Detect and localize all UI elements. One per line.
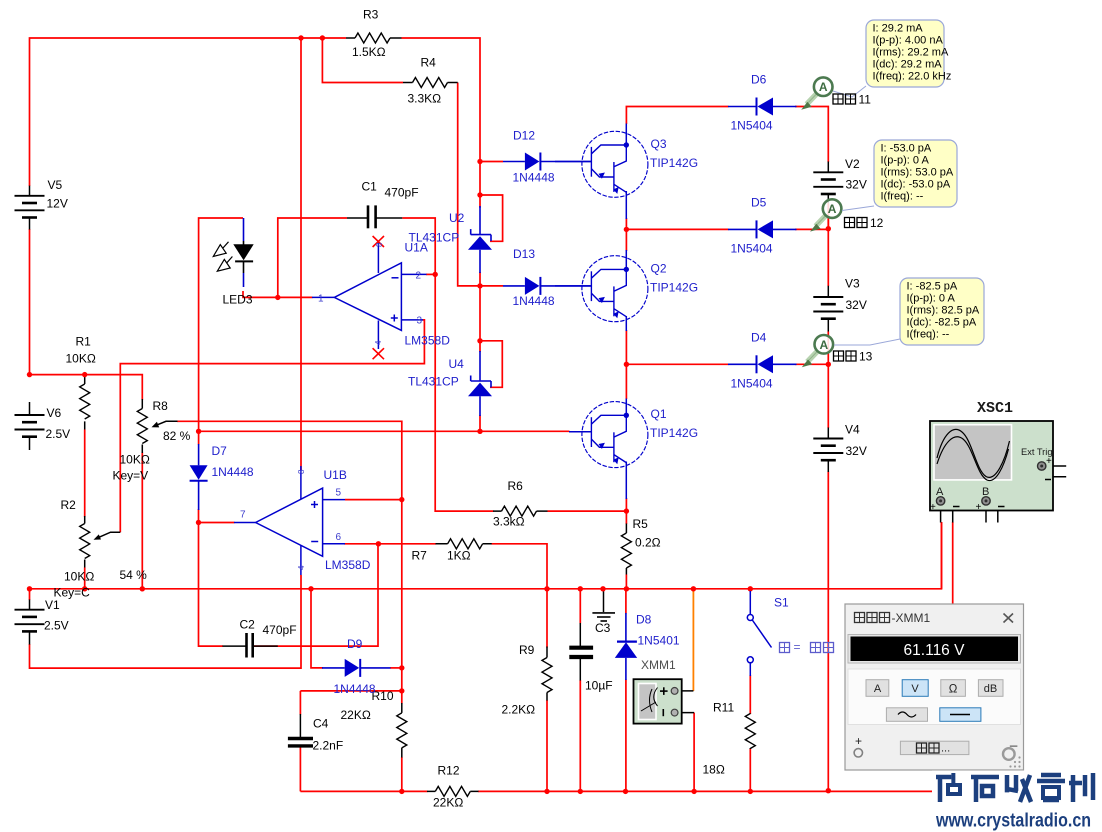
diode D7 1N4448 vertical (190, 465, 208, 481)
svg-text:0.2Ω: 0.2Ω (635, 536, 661, 550)
resistor R5 (621, 533, 631, 568)
node junction 6 (477, 338, 482, 343)
wire R8 bottom to mid rail (141, 453, 143, 589)
svg-text:Key=C: Key=C (54, 586, 91, 600)
svg-text:4: 4 (297, 565, 306, 570)
node junction 26 (140, 586, 145, 591)
wire net bottom rail right of R12 (478, 790, 953, 792)
node junction 36 (623, 789, 628, 794)
node junction 21 (624, 508, 629, 513)
node junction 23 (826, 362, 831, 367)
wire C3 top lead (579, 589, 581, 624)
wire R1 top lead drop (84, 375, 86, 377)
resistor R10 (397, 713, 407, 748)
resistor R6 (502, 506, 537, 516)
svg-text:Ω: Ω (949, 683, 958, 695)
svg-text:I: -82.5 pA: I: -82.5 pA (907, 281, 958, 293)
wire V2 leads (827, 162, 829, 204)
svg-text:32V: 32V (846, 298, 867, 312)
node junction 3 (477, 159, 482, 164)
svg-text:+: + (930, 502, 936, 513)
wire C4 leads (299, 714, 301, 748)
node junction 39 (826, 788, 831, 793)
wire V4 minus down to bottom rail (827, 472, 829, 791)
svg-text:10µF: 10µF (585, 679, 613, 693)
svg-text:13: 13 (859, 350, 873, 364)
wire V2- to D5 node (827, 203, 829, 229)
svg-text:2: 2 (416, 271, 422, 282)
resistor R11 (745, 714, 755, 749)
svg-text:470pF: 470pF (385, 186, 419, 200)
svg-text:D9: D9 (347, 637, 363, 651)
svg-text:8: 8 (375, 242, 384, 247)
svg-text:XSC1: XSC1 (977, 400, 1013, 417)
svg-text:6: 6 (336, 532, 342, 543)
svg-text:3: 3 (417, 316, 423, 327)
R2 wiper arrowhead (94, 534, 102, 539)
node junction 14 (399, 497, 404, 502)
svg-text:R8: R8 (153, 399, 169, 413)
battery V4 32V (813, 439, 843, 461)
current probe 13 (802, 335, 833, 367)
measurement box probe 13 (900, 278, 984, 345)
wire scope ext trig stubs (1046, 466, 1067, 477)
wire U1B pin4 down left to V1- (30, 575, 302, 668)
wire S1 bottom to R11 (749, 675, 751, 714)
svg-text:I(rms): 53.0 pA: I(rms): 53.0 pA (881, 167, 954, 179)
wire net C2 right to U1B pin6 / R7 (253, 544, 436, 646)
wire net bottom rail left of R12 (300, 790, 427, 792)
battery V6 2.5V (15, 415, 45, 437)
wire U4 ref loop (480, 341, 502, 388)
diode D8 1N5401 vertical (615, 642, 637, 658)
svg-text:+: + (855, 734, 862, 748)
node junction 34 (544, 789, 549, 794)
dialog resize grip (1009, 756, 1020, 767)
svg-text:S1: S1 (774, 596, 789, 610)
node junction 13 (275, 295, 280, 300)
svg-text:+: + (1046, 456, 1052, 467)
svg-text:Key=V: Key=V (113, 469, 149, 483)
svg-text:I(rms): 29.2 mA: I(rms): 29.2 mA (873, 47, 949, 59)
measurement box probe 12 (874, 140, 957, 207)
svg-text:dB: dB (984, 683, 997, 695)
resistor R7 (448, 539, 483, 549)
svg-text:I(p-p): 4.00 nA: I(p-p): 4.00 nA (873, 35, 944, 47)
wire R3 right to x480 bus down to U2 (402, 38, 481, 208)
wire V6 leads (29, 402, 31, 450)
wire D6 cathode to V2 top (795, 107, 828, 163)
svg-text:D5: D5 (751, 196, 767, 210)
svg-text:1N4448: 1N4448 (212, 465, 254, 479)
node junction 19 (624, 227, 629, 232)
node junction 5 (477, 283, 482, 288)
node junction 8 (433, 272, 438, 277)
svg-text:TIP142G: TIP142G (650, 281, 698, 295)
svg-text:470pF: 470pF (263, 623, 297, 637)
capacitor C1 (368, 205, 376, 228)
node junction 37 (691, 789, 696, 794)
svg-text:...: ... (941, 743, 950, 755)
capacitor C2 (247, 633, 253, 658)
svg-text:LM358D: LM358D (325, 558, 371, 572)
wire R9 leads (546, 647, 548, 701)
wire scope B terminal stubs (986, 501, 998, 523)
svg-text:3.3kΩ: 3.3kΩ (493, 515, 525, 529)
transistor Q3 TIP142G (582, 131, 648, 197)
wire C3 bottom to bottom rail (579, 680, 581, 791)
dialog title CJK 万用表-XMM1 (855, 613, 890, 623)
multimeter dialog XMM1 window (845, 604, 1024, 770)
diode D13 1N4448 (525, 277, 541, 295)
op-amp U1A no-connect X pin8 (373, 236, 384, 247)
svg-text:D4: D4 (751, 331, 767, 345)
wire net V5- / R1 / R8 top row (30, 229, 143, 400)
resistor R1 (80, 384, 90, 419)
svg-text:D8: D8 (636, 613, 652, 627)
wire D5 cathode to V2- V3+ node (795, 204, 828, 286)
svg-text:4: 4 (374, 340, 383, 345)
wire U1B pin7 stub (199, 522, 235, 524)
wire Q2 collector from D5 node (625, 229, 627, 251)
wire net U1A pin1 / LED3 cathode / C1 left (243, 218, 347, 297)
svg-text:TIP142G: TIP142G (650, 426, 698, 440)
svg-text:R12: R12 (438, 764, 460, 778)
svg-text:1: 1 (318, 294, 324, 305)
node junction 29 (600, 586, 605, 591)
svg-text:I: -53.0 pA: I: -53.0 pA (881, 143, 932, 155)
button settings CJK (900, 741, 969, 754)
wire V5 leads (29, 186, 31, 230)
label probe 12 (845, 218, 868, 228)
wire net mid rail (30, 522, 942, 589)
svg-text:www.crystalradio.cn: www.crystalradio.cn (935, 810, 1091, 832)
svg-text:10KΩ: 10KΩ (66, 352, 96, 366)
wire R10 top lead (401, 691, 403, 704)
svg-text:R2: R2 (61, 498, 77, 512)
node junction 11 (196, 429, 201, 434)
node junction 33 (399, 789, 404, 794)
wire D5 row (626, 228, 728, 230)
wire net LED3 anode / D7 / U4 anode / Q1 base row (199, 218, 570, 445)
svg-text:12V: 12V (47, 197, 68, 211)
wire R2 wiper arrow (98, 532, 121, 538)
callout line probe 12 (842, 206, 874, 211)
wire U4 anode to Q1 base row (479, 415, 481, 431)
battery V1 2.5V (15, 610, 45, 632)
svg-text:C1: C1 (362, 180, 378, 194)
node junction 22 (826, 226, 831, 231)
svg-text:C4: C4 (313, 717, 329, 731)
svg-text:V3: V3 (845, 277, 860, 291)
svg-text:I(freq): 22.0 kHz: I(freq): 22.0 kHz (873, 71, 952, 83)
wire R8 wiper arrow (156, 421, 178, 425)
svg-text:V5: V5 (48, 178, 63, 192)
svg-text:I: 29.2 mA: I: 29.2 mA (873, 23, 924, 35)
node junction 2 (320, 35, 325, 40)
svg-text:12: 12 (870, 216, 884, 230)
node junction 9 (27, 372, 32, 377)
svg-text:1N5404: 1N5404 (731, 377, 773, 391)
current probe 12 (810, 199, 841, 231)
diode D5 1N5404 (757, 220, 774, 238)
svg-text:1KΩ: 1KΩ (447, 549, 471, 563)
svg-text:61.116 V: 61.116 V (904, 642, 966, 659)
node junction 27 (544, 586, 549, 591)
svg-text:TL431CP: TL431CP (408, 375, 459, 389)
wire net R4 branch (322, 38, 403, 83)
wire Q1 emitter to R5 top node (625, 498, 627, 511)
oscilloscope XSC1 (930, 421, 1053, 513)
wire R9 bottom to bottom rail (546, 700, 548, 791)
wire stub to D13 anode (480, 285, 503, 287)
node junction 7 (477, 429, 482, 434)
svg-text:R1: R1 (76, 335, 92, 349)
svg-text:-XMM1: -XMM1 (892, 611, 931, 625)
wire U1A pin2 stub (426, 273, 435, 275)
svg-text:V6: V6 (47, 406, 62, 420)
svg-text:R5: R5 (633, 517, 649, 531)
svg-text:D13: D13 (513, 247, 535, 261)
LED LED3 (233, 244, 253, 260)
svg-text:V4: V4 (845, 423, 860, 437)
wire R12 leads (427, 790, 479, 792)
wire R2 leads (84, 516, 86, 568)
node junction 15 (376, 541, 381, 546)
svg-text:82 %: 82 % (163, 429, 191, 443)
node junction 25 (82, 586, 87, 591)
node junction 18 (308, 586, 313, 591)
resistor R3 (355, 33, 390, 43)
label probe 11 (833, 94, 856, 104)
diode D4 1N5404 (757, 355, 774, 373)
wire D4 cathode to V3- V4+ node (795, 332, 828, 429)
wire R1 bottom to R2 top (84, 430, 86, 518)
svg-text:22KΩ: 22KΩ (433, 796, 463, 810)
svg-text:LED3: LED3 (223, 293, 253, 307)
svg-text:V2: V2 (845, 157, 860, 171)
svg-text:_: _ (1009, 732, 1018, 747)
svg-text:I(freq): --: I(freq): -- (881, 191, 924, 203)
R8 wiper arrowhead (152, 422, 160, 428)
svg-text:D7: D7 (212, 444, 228, 458)
wire R10 leads (401, 703, 403, 758)
svg-text:22KΩ: 22KΩ (341, 708, 371, 722)
wire net U1A pin3 to R2 wiper (120, 320, 424, 532)
potentiometer R8 (137, 409, 147, 444)
wire D4 row (626, 363, 728, 365)
button AC (886, 708, 927, 722)
multimeter icon XMM1 (634, 679, 682, 723)
svg-text:R4: R4 (421, 56, 437, 70)
wire R5 leads (625, 524, 627, 575)
wire stub to D12 anode (480, 161, 503, 163)
node junction 28 (578, 586, 583, 591)
svg-text:8: 8 (297, 469, 306, 474)
shunt regulator U4 TL431CP (468, 376, 492, 397)
button Ohm (941, 680, 966, 697)
ground (592, 613, 615, 621)
resistor R12 (435, 786, 470, 796)
battery V3 32V (813, 297, 843, 319)
button V selected (902, 680, 928, 697)
wire Q1 collector from D4 node (625, 364, 627, 399)
op-amp U1A no-connect X pin4 (373, 348, 384, 359)
node junction 32 (748, 586, 753, 591)
svg-text:XMM1: XMM1 (641, 658, 676, 672)
resistor R4 (413, 78, 448, 88)
wire orange mid rail to XMM1 + terminal (692, 589, 694, 691)
svg-text:1N4448: 1N4448 (334, 682, 376, 696)
LED3 arrows (213, 242, 232, 271)
svg-text:Q2: Q2 (651, 262, 667, 276)
svg-text:LM358D: LM358D (405, 334, 451, 348)
capacitor C4 2.2nF (288, 739, 313, 746)
node junction 1 (298, 35, 303, 40)
transistor Q1 TIP142G (582, 402, 648, 468)
svg-text:U1A: U1A (405, 241, 428, 255)
shunt regulator U2 TL431CP (468, 229, 492, 250)
node junction 12 (196, 520, 201, 525)
svg-text:R6: R6 (508, 479, 524, 493)
svg-text:I(freq): --: I(freq): -- (907, 329, 950, 341)
label probe 13 (834, 351, 857, 361)
potentiometer R2 (80, 524, 90, 559)
svg-text:C3: C3 (595, 621, 611, 635)
svg-text:=: = (794, 640, 801, 654)
svg-text:C2: C2 (240, 618, 256, 632)
wire Q2 emitter to D4 node (625, 330, 627, 364)
current probe 11 (801, 77, 832, 109)
wire net +12V rail down to U1B pin8 (300, 38, 302, 470)
wire XMM1 minus to bottom rail (693, 713, 695, 792)
wire R4 right down to D13 node (458, 83, 480, 286)
wire V1 leads (29, 600, 31, 645)
wire D9 anode from mid rail (311, 589, 323, 668)
wire R11 bottom to bottom rail (749, 749, 751, 792)
wire C4 branch verticals (299, 691, 301, 792)
button DC selected (940, 708, 981, 722)
wire R4 leads (403, 82, 458, 84)
wire U2 ref loop (480, 195, 503, 241)
svg-text:2.5V: 2.5V (44, 619, 69, 633)
svg-text:TIP142G: TIP142G (650, 156, 698, 170)
svg-text:7: 7 (240, 510, 246, 521)
svg-text:10KΩ: 10KΩ (120, 453, 150, 467)
wire net V1 top lead (29, 589, 31, 600)
wire net R8 wiper to U1B pin5 and D9/R10 bus (177, 421, 402, 691)
transistor Q2 TIP142G (582, 256, 648, 322)
wire C1 leads (347, 217, 402, 219)
svg-text:Q3: Q3 (651, 137, 667, 151)
node junction 31 (691, 586, 696, 591)
wire D7 cathode to U1B pin7 (199, 509, 224, 646)
svg-text:Q1: Q1 (651, 407, 667, 421)
svg-text:U4: U4 (449, 357, 465, 371)
svg-text:1N5404: 1N5404 (731, 242, 773, 256)
svg-text:I(p-p): 0 A: I(p-p): 0 A (907, 293, 956, 305)
callout line probe 11 (833, 86, 866, 97)
button dB (978, 680, 1003, 697)
button A (866, 680, 889, 697)
measurement box probe 11 (866, 20, 951, 87)
wire ground stub (603, 589, 605, 612)
wire D9 cathode stub (390, 667, 402, 669)
wire C4 top row (300, 690, 401, 692)
diode D12 1N4448 (525, 153, 541, 171)
svg-text:I(dc): 29.2 mA: I(dc): 29.2 mA (873, 59, 943, 71)
svg-text:10KΩ: 10KΩ (64, 570, 94, 584)
svg-text:5: 5 (336, 488, 342, 499)
node junction 24 (27, 586, 32, 591)
wire R3 leads (346, 37, 402, 39)
wire U1B pin5 stub (345, 499, 402, 501)
svg-text:R7: R7 (412, 549, 428, 563)
node junction 35 (578, 789, 583, 794)
wire R6 right to Q1 emitter node (548, 510, 627, 512)
callout line probe 13 (834, 339, 900, 345)
svg-text:V: V (911, 683, 919, 695)
wire R2 bottom to mid rail (84, 568, 86, 589)
svg-text:1N5401: 1N5401 (638, 634, 680, 648)
wire R5 top lead (625, 511, 627, 524)
svg-text:32V: 32V (846, 444, 867, 458)
svg-text:3.3KΩ: 3.3KΩ (408, 92, 442, 106)
resistor R9 (542, 658, 552, 693)
wire net V5+ / top rail to R3 (30, 38, 347, 186)
wire x480 bus D13 to U4 cathode (479, 286, 481, 352)
svg-text:1.5KΩ: 1.5KΩ (352, 45, 386, 59)
dialog display (848, 635, 1021, 664)
node junction 16 (399, 665, 404, 670)
wire R11 leads (749, 714, 751, 750)
wire Q3 collector to D6 row (626, 107, 728, 125)
node junction 20 (624, 362, 629, 367)
node junction 38 (748, 789, 753, 794)
diode D6 1N5404 (757, 98, 774, 116)
battery V5 12V (15, 196, 45, 218)
svg-text:I(rms): 82.5 pA: I(rms): 82.5 pA (907, 305, 980, 317)
capacitor C3 10uF (569, 648, 593, 657)
svg-text:V1: V1 (45, 598, 60, 612)
wire C3 leads (579, 623, 581, 681)
svg-text:R11: R11 (713, 701, 734, 715)
wire D8 bottom to bottom rail (625, 589, 627, 792)
wire net C1 right to U1A pin2 to R6 (402, 218, 493, 511)
svg-text:1N5404: 1N5404 (731, 119, 773, 133)
svg-text:+: + (976, 502, 982, 513)
wire V3 leads (827, 286, 829, 332)
svg-text:1N4448: 1N4448 (513, 294, 555, 308)
wire C2 leads (223, 645, 278, 647)
svg-text:R3: R3 (363, 8, 379, 22)
svg-text:I(dc): -53.0 pA: I(dc): -53.0 pA (881, 179, 951, 191)
watermark logo kuangshi radio CJK (932, 771, 1100, 832)
svg-text:U1B: U1B (324, 468, 347, 482)
node junction 10 (82, 372, 87, 377)
wire R6 leads (493, 510, 548, 512)
wire R7 right to mid rail and R9 (492, 544, 548, 648)
svg-text:I(dc): -82.5 pA: I(dc): -82.5 pA (907, 317, 977, 329)
dialog button panel (848, 669, 1021, 725)
op-amp U1A LM358D (312, 243, 427, 350)
svg-text:D6: D6 (751, 73, 767, 87)
wire U2 anode to D13 node (479, 272, 481, 286)
svg-text:2.5V: 2.5V (46, 427, 71, 441)
wire XMM1 terminal stubs (678, 691, 694, 713)
op-amp U1B LM358D (234, 466, 345, 575)
wire R10 bottom to bottom rail (401, 757, 403, 791)
